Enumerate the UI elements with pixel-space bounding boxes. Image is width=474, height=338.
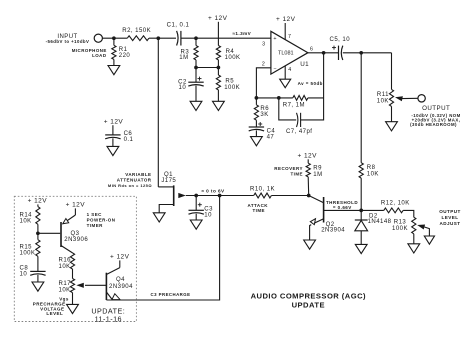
ground below C2 — [195, 86, 197, 102]
ground below C8 — [37, 275, 39, 282]
wire input rail — [102, 37, 127, 39]
node attenuator tap — [156, 36, 160, 40]
svg-text:+ 12V: + 12V — [208, 15, 228, 22]
svg-text:≈1.3mV: ≈1.3mV — [232, 31, 251, 36]
svg-text:R10, 1K: R10, 1K — [250, 186, 275, 192]
svg-text:10: 10 — [20, 271, 28, 277]
svg-text:100K: 100K — [20, 251, 36, 257]
svg-text:47: 47 — [267, 134, 275, 140]
ground below C6 — [112, 138, 114, 146]
resistor R11 potentiometer — [389, 89, 393, 106]
wire R14 to junction — [37, 224, 39, 239]
resistor R12 — [361, 209, 384, 211]
ground Q2 emitter — [304, 240, 316, 249]
svg-text:TIMER: TIMER — [87, 223, 104, 228]
node R14/R15/Q3 base — [36, 231, 40, 235]
wire R12 to R13 — [403, 210, 414, 217]
svg-text:C5, 10: C5, 10 — [330, 37, 351, 43]
wire C5 to R11 corner — [343, 52, 392, 54]
svg-text:R8: R8 — [367, 165, 376, 171]
node threshold — [359, 209, 363, 213]
svg-text:MIN Rds on = 125Ω: MIN Rds on = 125Ω — [108, 183, 152, 188]
svg-text:2N3906: 2N3906 — [64, 237, 88, 243]
svg-text:2N3904: 2N3904 — [109, 284, 133, 290]
wire pin4 — [284, 66, 286, 79]
svg-text:3: 3 — [262, 41, 265, 47]
ground below R13 — [413, 234, 415, 244]
svg-text:≈ 0 to 6V: ≈ 0 to 6V — [201, 189, 225, 194]
capacitor C3 — [195, 196, 197, 211]
node R3 bottom — [194, 66, 198, 70]
svg-text:10: 10 — [179, 85, 187, 91]
svg-text:R2, 150K: R2, 150K — [122, 28, 151, 34]
capacitor C4 — [255, 120, 257, 127]
svg-text:R5: R5 — [225, 79, 234, 85]
svg-text:-56dbV to +10dbV: -56dbV to +10dbV — [46, 39, 90, 44]
svg-text:7: 7 — [288, 34, 291, 40]
ground below C4 — [255, 130, 257, 136]
node R4 bottom — [217, 66, 221, 70]
wire +12V to R4 (crosses signal rail) — [217, 22, 219, 46]
resistor R5 — [217, 68, 219, 76]
svg-text:10: 10 — [204, 212, 212, 218]
wire C1 to opamp pin3 — [181, 37, 271, 39]
svg-text:TIME: TIME — [252, 208, 265, 213]
svg-text:RECOVERY: RECOVERY — [274, 166, 303, 171]
svg-text:R16: R16 — [59, 258, 72, 264]
node R3 top — [194, 36, 198, 40]
svg-text:+ 12V: + 12V — [110, 254, 130, 261]
svg-text:220: 220 — [119, 53, 131, 59]
svg-text:0.1: 0.1 — [124, 137, 134, 143]
resistor R2 — [127, 36, 149, 41]
resistor R7 — [293, 96, 308, 101]
resistor R6 — [255, 98, 257, 105]
svg-text:OUTPUT: OUTPUT — [422, 105, 450, 112]
svg-text:10K: 10K — [367, 172, 379, 178]
svg-text:−: − — [273, 66, 277, 72]
svg-text:TIME: TIME — [290, 171, 303, 176]
transistor Q4 2N3904 — [105, 273, 107, 300]
svg-text:LEVEL: LEVEL — [46, 311, 63, 316]
resistor R1 — [113, 38, 115, 45]
resistor R9 — [307, 159, 309, 163]
svg-text:U1: U1 — [300, 61, 309, 68]
wire threshold feed vertical — [360, 53, 362, 163]
op-amp U1 TL081 — [271, 31, 308, 74]
svg-text:Q3: Q3 — [71, 231, 80, 237]
svg-text:1 SEC: 1 SEC — [87, 212, 103, 217]
wire bias node row — [195, 60, 197, 68]
svg-text:UPDATE: UPDATE — [292, 301, 325, 310]
wire Q3 base — [38, 232, 60, 234]
svg-text:VARIABLE: VARIABLE — [125, 172, 151, 177]
resistor R14 — [37, 204, 39, 206]
node recovery/attack — [307, 194, 311, 198]
ground below R17 — [72, 293, 74, 305]
svg-text:(30db HEADROOM): (30db HEADROOM) — [410, 122, 457, 127]
svg-text:+: + — [273, 36, 277, 42]
transistor Q3 2N3906 — [60, 222, 62, 247]
svg-text:R9: R9 — [313, 166, 322, 172]
Q1 gate arrow — [178, 193, 186, 198]
node feedback tap — [322, 51, 326, 55]
svg-text:Q4: Q4 — [116, 277, 125, 283]
ground R13 wiper — [424, 236, 434, 244]
node C7 branch — [277, 96, 281, 100]
svg-text:3K: 3K — [260, 112, 268, 118]
svg-text:1N4148: 1N4148 — [368, 219, 392, 225]
svg-text:LEVEL: LEVEL — [441, 215, 458, 220]
svg-text:TL081: TL081 — [278, 51, 294, 57]
resistor R17 potentiometer — [70, 279, 74, 293]
resistor R10 — [254, 193, 272, 198]
svg-text:AUDIO COMPRESSOR (AGC): AUDIO COMPRESSOR (AGC) — [251, 292, 366, 301]
svg-text:10K: 10K — [59, 264, 71, 270]
ground below R11 — [391, 106, 393, 121]
node OUTPUT terminal — [418, 95, 425, 102]
svg-text:6: 6 — [310, 46, 313, 52]
pot R11 wiper — [395, 96, 403, 101]
svg-text:R7, 1M: R7, 1M — [283, 103, 305, 109]
node INPUT terminal — [94, 34, 102, 42]
resistor R13 potentiometer — [412, 217, 416, 234]
svg-text:= 0.66V: = 0.66V — [333, 205, 352, 210]
svg-text:ATTACK: ATTACK — [247, 203, 268, 208]
svg-text:LOAD: LOAD — [92, 53, 107, 58]
wire R8 to threshold node — [360, 178, 362, 210]
svg-text:Q1: Q1 — [164, 172, 173, 178]
resistor R8 — [359, 163, 363, 178]
capacitor C1 — [177, 31, 179, 46]
node R1 junction — [112, 36, 116, 40]
variable attenuator JFET Q1 J175 — [157, 38, 159, 187]
svg-text:10K: 10K — [20, 218, 32, 224]
resistor R3 — [195, 38, 197, 45]
ground below C3 — [195, 214, 197, 220]
svg-text:10K: 10K — [377, 98, 389, 104]
svg-text:100K: 100K — [224, 85, 240, 91]
capacitor C6 — [112, 125, 114, 135]
svg-text:11-1-16: 11-1-16 — [95, 314, 122, 323]
svg-text:1M: 1M — [313, 172, 322, 178]
node feedback left — [255, 96, 259, 100]
wire feedback rail — [256, 97, 292, 99]
dashed enclosure power-on timer — [14, 196, 136, 321]
resistor R16 — [70, 253, 74, 269]
ground opamp pin4 — [280, 79, 291, 88]
wire pin2 to feedback rail — [256, 68, 271, 98]
wire R10 to node — [271, 195, 308, 197]
ground below D2 — [355, 244, 367, 253]
svg-text:100K: 100K — [225, 55, 241, 61]
pot R13 wiper — [417, 225, 425, 230]
svg-text:100K: 100K — [392, 226, 408, 232]
svg-text:+ 12V: + 12V — [104, 118, 124, 125]
wire R2 to C1 — [149, 37, 176, 39]
wire R16 to R17 — [72, 269, 74, 279]
wire C7 to vertical — [301, 53, 324, 120]
svg-text:OUTPUT: OUTPUT — [439, 209, 461, 214]
ground Q1 source — [153, 213, 165, 222]
ground below R1 — [113, 59, 115, 65]
svg-text:R11: R11 — [377, 92, 389, 98]
capacitor C8 — [37, 256, 39, 271]
svg-text:+ 12V: + 12V — [28, 198, 48, 205]
node precharge junction — [218, 194, 222, 198]
diode D2 1N4148 — [360, 210, 362, 220]
wire pin7 — [284, 23, 286, 40]
svg-text:C1, 0.1: C1, 0.1 — [167, 22, 190, 28]
node threshold feed tap — [359, 51, 363, 55]
svg-text:ADJUST: ADJUST — [439, 221, 460, 226]
wire R7 right to output tap — [308, 97, 324, 99]
svg-text:C7, 47pf: C7, 47pf — [286, 129, 312, 135]
capacitor C5 — [338, 46, 340, 60]
wire C7 branch — [279, 98, 296, 120]
svg-text:C3 PRECHARGE: C3 PRECHARGE — [151, 292, 191, 297]
svg-text:Av = 50db: Av = 50db — [298, 81, 323, 86]
svg-text:10K: 10K — [59, 287, 71, 293]
ground below R5 — [217, 90, 219, 101]
svg-text:2N3904: 2N3904 — [321, 228, 345, 234]
svg-text:4: 4 — [288, 67, 291, 73]
transistor Q2 2N3904 — [323, 197, 325, 223]
svg-text:+ 12V: + 12V — [66, 202, 86, 209]
resistor R15 — [36, 240, 40, 257]
svg-text:R17: R17 — [59, 281, 72, 287]
resistor R4 — [216, 46, 220, 60]
svg-text:J175: J175 — [161, 178, 176, 184]
svg-text:2: 2 — [262, 62, 265, 68]
capacitor C2 — [195, 68, 197, 83]
pot R17 wiper — [76, 283, 84, 288]
svg-text:ATTENUATOR: ATTENUATOR — [117, 178, 152, 183]
node C3 junction — [194, 194, 198, 198]
svg-text:+ 12V: + 12V — [297, 153, 317, 160]
svg-text:POWER-ON: POWER-ON — [87, 218, 116, 223]
wire opamp output — [308, 52, 339, 54]
svg-text:1M: 1M — [179, 55, 188, 61]
svg-text:+ 12V: + 12V — [276, 16, 296, 23]
svg-text:R12, 10K: R12, 10K — [381, 201, 410, 207]
wire precharge from Q4 emitter — [106, 196, 219, 301]
svg-text:R13: R13 — [394, 220, 407, 226]
wire down to R11 — [391, 53, 393, 90]
capacitor C7 — [297, 113, 298, 127]
